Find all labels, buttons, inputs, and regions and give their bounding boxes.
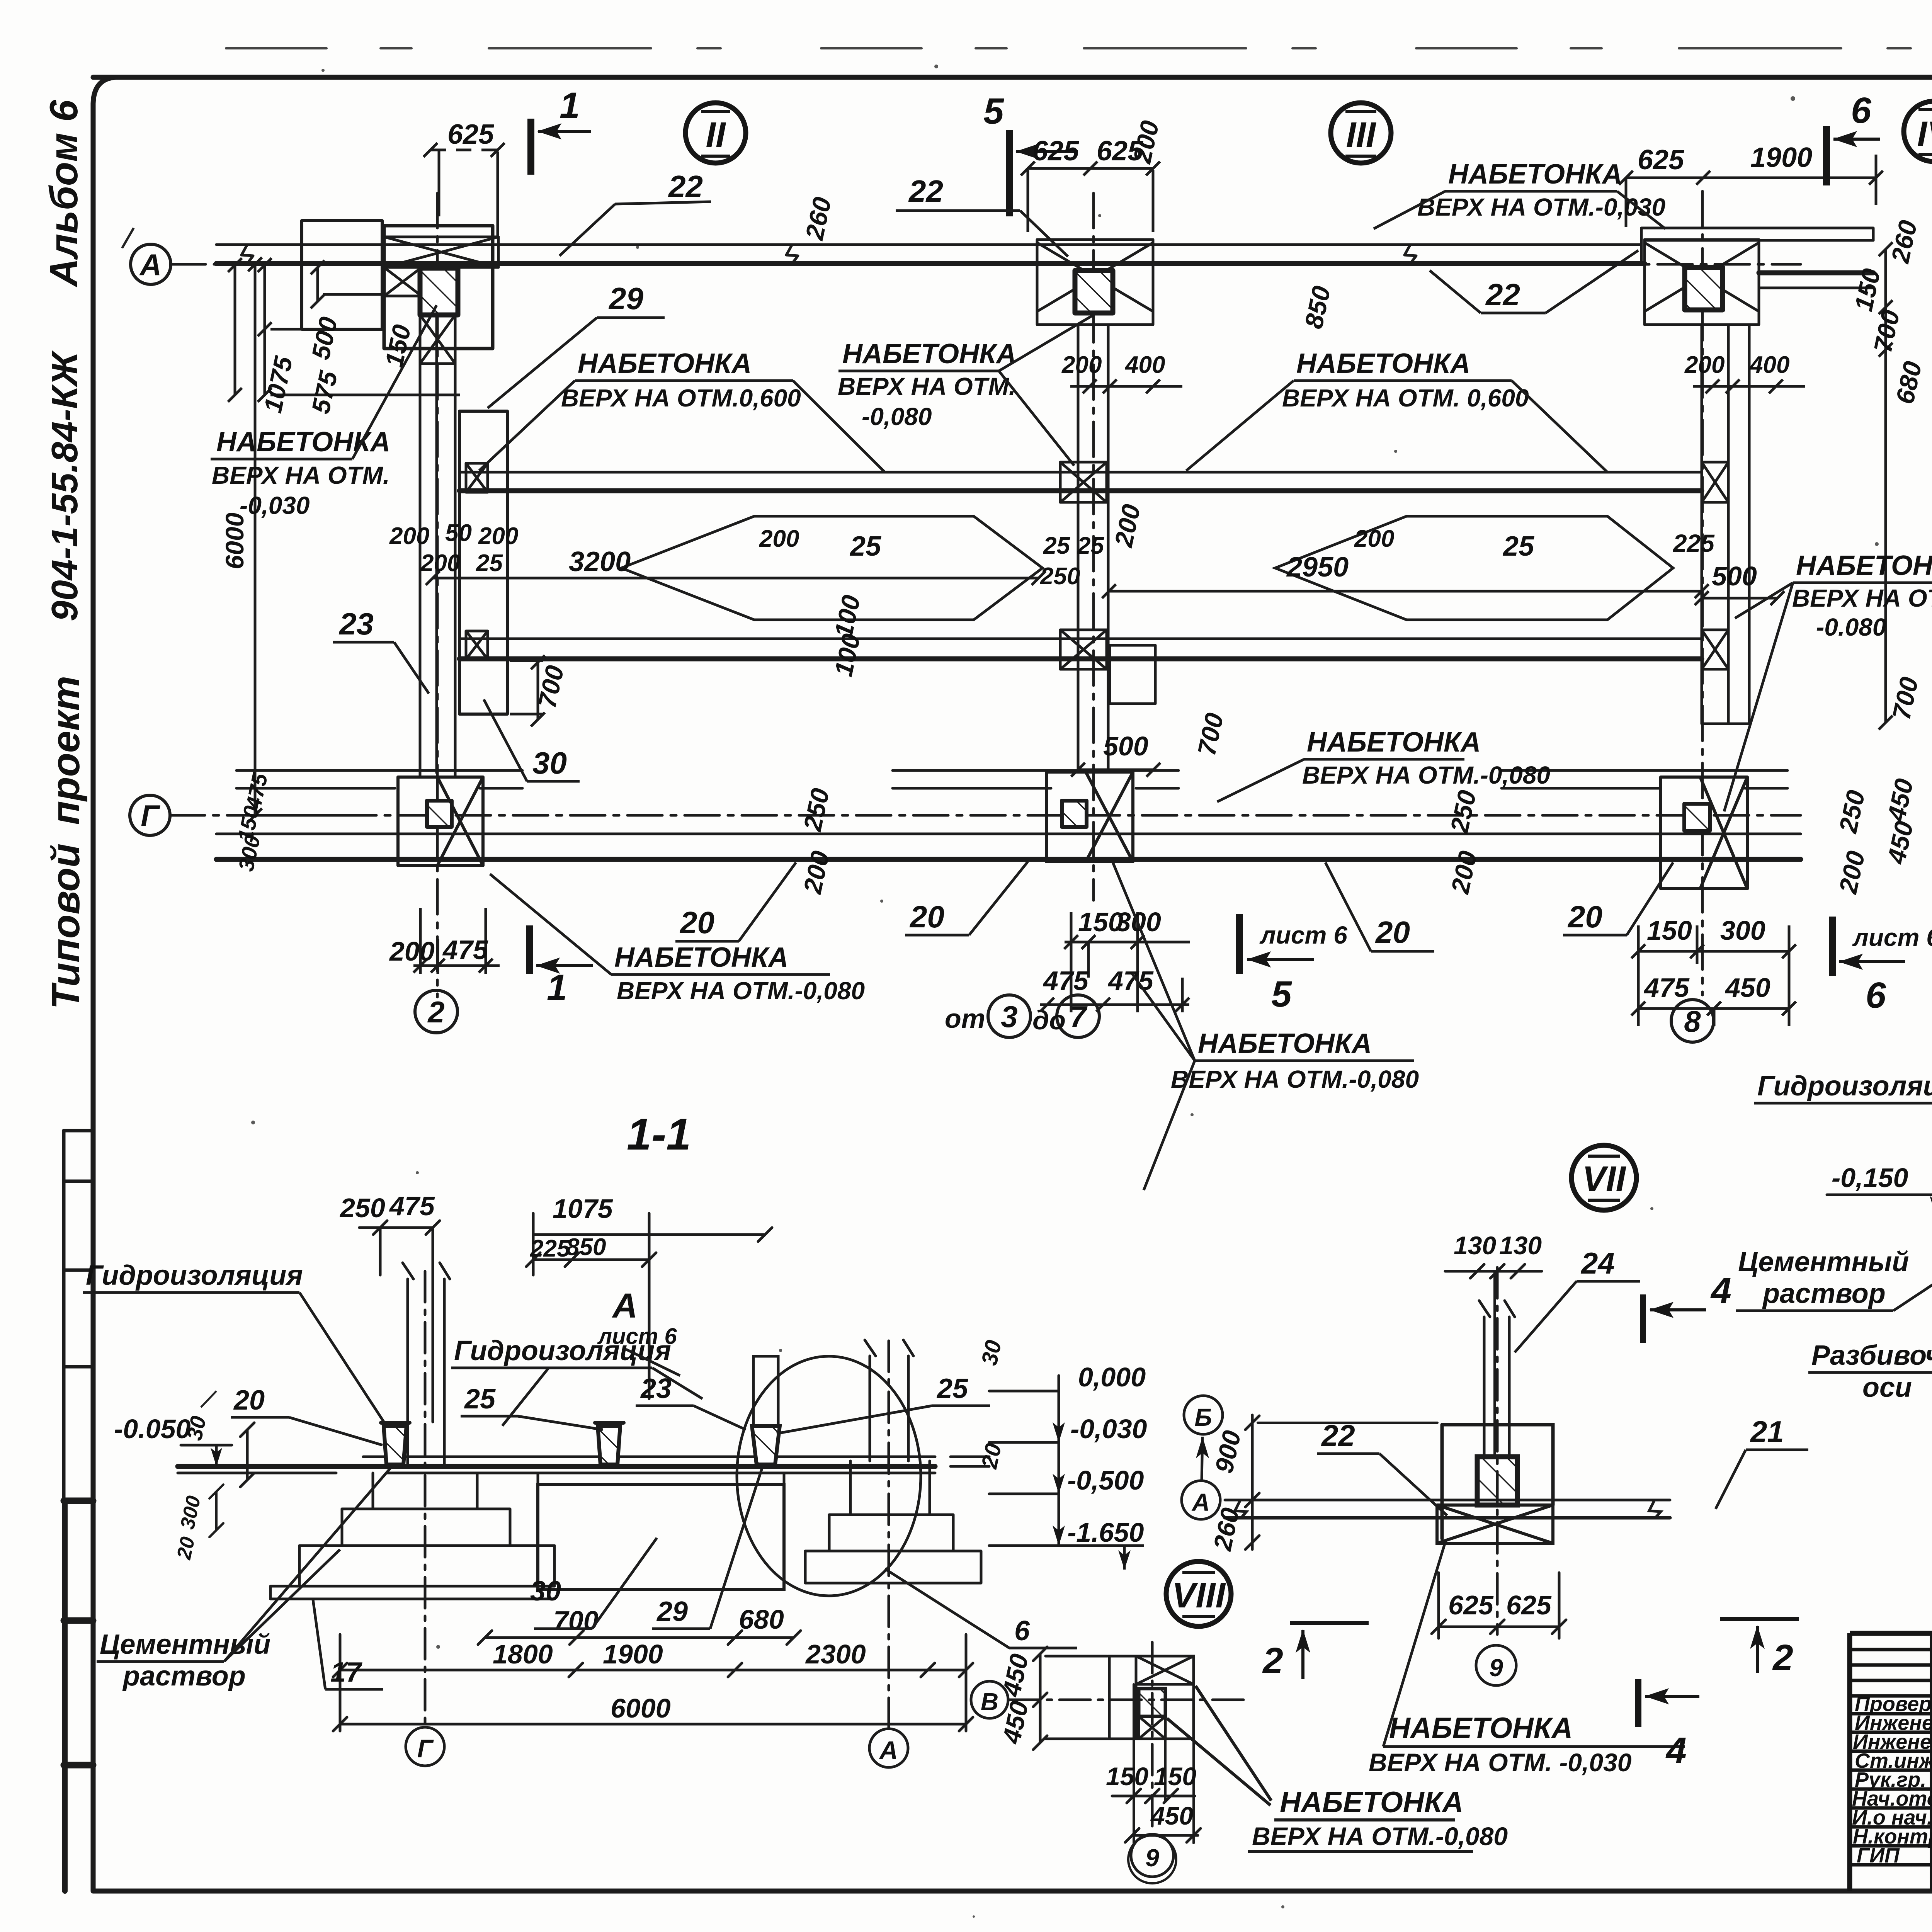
signature table rows (1850, 1650, 1932, 1865)
axis horizontal A (1221, 1500, 1497, 1500)
svg-text:200: 200 (1354, 526, 1394, 552)
svg-text:475: 475 (442, 935, 488, 965)
ground slab lines (178, 1464, 935, 1469)
svg-text:6000: 6000 (611, 1693, 671, 1723)
svg-text:В: В (981, 1688, 998, 1716)
pedestal square (1442, 1425, 1553, 1539)
svg-text:1900: 1900 (1750, 142, 1812, 173)
svg-text:А: А (879, 1736, 898, 1764)
detail ellipse A (737, 1356, 921, 1596)
svg-text:475: 475 (389, 1191, 435, 1221)
svg-text:-0,080: -0,080 (862, 403, 932, 430)
svg-text:400: 400 (1124, 352, 1165, 378)
leader labels (338, 169, 1602, 949)
svg-text:-0,030: -0,030 (240, 492, 310, 519)
foundation F3 (row A, axis 8) (1645, 240, 1759, 325)
wedge 3 tall with stem (29) (753, 1356, 778, 1426)
svg-text:29: 29 (656, 1596, 688, 1627)
svg-text:25: 25 (936, 1373, 968, 1404)
svg-text:2: 2 (1772, 1637, 1793, 1678)
TITLEBLOCK (1850, 1498, 1932, 1891)
left elevation -0.050 (181, 1445, 232, 1466)
svg-text:-0,150: -0,150 (1832, 1163, 1908, 1193)
axis (1009, 1699, 1244, 1701)
row G beams main (216, 833, 1801, 835)
stray pen mark top-left corner (122, 228, 134, 248)
svg-text:ВЕРХ НА ОТМ.: ВЕРХ НА ОТМ. (1792, 584, 1932, 612)
svg-text:Б: Б (1194, 1403, 1212, 1431)
svg-text:1800: 1800 (493, 1639, 553, 1669)
svg-text:500: 500 (1103, 731, 1148, 761)
svg-text:1: 1 (547, 967, 567, 1008)
svg-text:3: 3 (1001, 1000, 1017, 1034)
svg-text:1: 1 (560, 85, 580, 126)
mid dim row (433, 578, 1702, 591)
svg-text:Цементный: Цементный (100, 1629, 270, 1660)
svg-text:500: 500 (1712, 561, 1757, 591)
svg-text:ВЕРХ НА ОТМ.0,600: ВЕРХ НА ОТМ.0,600 (561, 384, 801, 412)
svg-text:0,000: 0,000 (1078, 1362, 1146, 1392)
wedge 2 (598, 1426, 620, 1464)
circles B / A left (1182, 1396, 1223, 1519)
svg-text:II: II (706, 115, 726, 155)
svg-text:ВЕРХ НА ОТМ.: ВЕРХ НА ОТМ. (838, 372, 1016, 400)
svg-text:22: 22 (908, 174, 943, 208)
svg-text:680: 680 (739, 1604, 784, 1634)
hatched column (1477, 1457, 1517, 1505)
main outline (1850, 1633, 1932, 1891)
svg-text:НАБЕТОНКА: НАБЕТОНКА (842, 338, 1016, 369)
svg-text:ВЕРХ НА ОТМ.-0,080: ВЕРХ НА ОТМ.-0,080 (1252, 1822, 1508, 1850)
svg-text:30: 30 (530, 1576, 561, 1607)
row G slab near col 8 (1502, 770, 1787, 788)
svg-text:Г: Г (141, 799, 160, 833)
svg-text:130: 130 (1454, 1231, 1496, 1260)
svg-text:Г: Г (417, 1734, 434, 1763)
beam break marks (241, 245, 1416, 264)
hatched column A mid (1075, 270, 1113, 313)
svg-text:6: 6 (1014, 1616, 1030, 1646)
svg-text:3200: 3200 (569, 546, 631, 577)
svg-text:VIII: VIII (1172, 1576, 1226, 1615)
svg-text:475: 475 (1643, 973, 1690, 1003)
svg-text:700: 700 (553, 1605, 599, 1636)
svg-text:22: 22 (668, 169, 703, 204)
svg-text:475: 475 (1043, 966, 1089, 996)
svg-text:20: 20 (173, 1535, 199, 1562)
column lines above (1484, 1317, 1509, 1457)
foundation F2 (row A, mid) (1037, 240, 1153, 325)
svg-text:1-1: 1-1 (627, 1110, 691, 1159)
svg-text:проект: проект (44, 676, 88, 825)
column strip S2 (1078, 325, 1108, 772)
wedge 1 (hydro) (384, 1426, 406, 1464)
axis circle A (130, 244, 1714, 1042)
titleblock texts (1852, 1692, 1932, 1868)
svg-text:2: 2 (1262, 1640, 1283, 1681)
svg-text:Гидроизоляция: Гидроизоляция (86, 1260, 303, 1291)
svg-text:-1.650: -1.650 (1067, 1517, 1144, 1548)
right pedestal and footing (805, 1461, 981, 1583)
svg-text:200: 200 (389, 523, 429, 549)
svg-text:200: 200 (1684, 352, 1725, 378)
svg-text:17: 17 (330, 1657, 362, 1688)
svg-text:1900: 1900 (603, 1639, 663, 1669)
svg-text:20: 20 (909, 900, 944, 934)
svg-text:22: 22 (1321, 1418, 1355, 1452)
svg-text:625: 625 (1506, 1590, 1552, 1620)
svg-text:2300: 2300 (805, 1639, 866, 1669)
row G slab near col 2 (236, 770, 522, 788)
axis 8 vertical (1701, 191, 1704, 995)
column strip S3 (1702, 325, 1749, 724)
svg-text:2: 2 (427, 995, 444, 1029)
axis A row: dash-dot line (171, 263, 1801, 266)
svg-text:30: 30 (182, 1414, 211, 1442)
svg-text:до: до (1032, 1005, 1066, 1035)
svg-text:IV: IV (1917, 114, 1932, 154)
svg-text:24: 24 (1580, 1246, 1615, 1280)
dim lines top of plan (228, 143, 1932, 1026)
G column assembly axis 8 (1661, 777, 1747, 889)
svg-text:раствор: раствор (1762, 1278, 1886, 1309)
dim texts row G (389, 529, 1784, 1003)
svg-text:III: III (1346, 115, 1377, 155)
axis 3..7 vertical (1092, 193, 1095, 900)
leaders to nabetonka -0.080 text (1167, 1686, 1271, 1805)
svg-text:-0.050: -0.050 (114, 1414, 191, 1444)
svg-text:ГИП: ГИП (1857, 1844, 1900, 1867)
svg-text:НАБЕТОНКА: НАБЕТОНКА (1448, 159, 1622, 190)
mid beams M2 (459, 638, 1702, 640)
foundation block left of M beams (29) (459, 411, 507, 714)
axis 2 vertical (436, 193, 439, 997)
right vertical dims (1886, 249, 1932, 893)
svg-text:25: 25 (1502, 531, 1534, 562)
left vertical dims (232, 264, 344, 815)
svg-text:4: 4 (1665, 1730, 1687, 1771)
svg-text:ВЕРХ НА ОТМ.-0,030: ВЕРХ НА ОТМ.-0,030 (1417, 193, 1665, 221)
elevation -0.150 (1827, 1195, 1932, 1215)
rotated dim texts (220, 118, 1932, 896)
svg-text:ВЕРХ НА ОТМ.: ВЕРХ НА ОТМ. (212, 461, 390, 489)
svg-text:-0,500: -0,500 (1067, 1465, 1144, 1495)
dim 900/260 left (1245, 1415, 1259, 1549)
svg-text:ВЕРХ НА ОТМ.-0,080: ВЕРХ НА ОТМ.-0,080 (1302, 761, 1550, 789)
left column (408, 1279, 444, 1466)
section marks 2 and 4 (1290, 1294, 1799, 1727)
svg-text:5: 5 (1271, 974, 1292, 1015)
svg-text:Гидроизоляция: Гидроизоляция (1757, 1071, 1932, 1102)
svg-text:625: 625 (1032, 136, 1079, 167)
svg-text:400: 400 (1749, 352, 1789, 378)
svg-text:20: 20 (679, 905, 714, 940)
svg-text:НАБЕТОНКА: НАБЕТОНКА (578, 348, 752, 379)
dims 625 625 below (1432, 1573, 1566, 1638)
svg-text:625: 625 (1638, 145, 1684, 175)
beam row A (1225, 1499, 1670, 1502)
underlines + leaders for nabetonka (211, 191, 1932, 1190)
svg-text:450: 450 (1150, 1801, 1193, 1830)
svg-text:НАБЕТОНКА: НАБЕТОНКА (1280, 1786, 1463, 1819)
svg-text:200: 200 (1061, 352, 1102, 378)
svg-text:лист 6: лист 6 (1852, 923, 1932, 951)
svg-text:2950: 2950 (1286, 552, 1349, 583)
signature table verticals (1932, 1633, 1932, 1891)
foundation F1 (row A, axis 2) (302, 221, 382, 329)
mid foundation block 30 (538, 1485, 784, 1590)
svg-text:200: 200 (420, 550, 460, 577)
svg-text:-0,030: -0,030 (1070, 1414, 1147, 1444)
crossed box (1437, 1505, 1553, 1543)
svg-text:850: 850 (566, 1234, 606, 1260)
svg-text:9: 9 (1489, 1654, 1503, 1682)
svg-text:30: 30 (976, 1338, 1006, 1368)
svg-text:475: 475 (1107, 966, 1154, 996)
svg-text:625: 625 (447, 119, 494, 150)
right column (870, 1356, 908, 1461)
svg-text:21: 21 (1750, 1415, 1784, 1449)
svg-text:25: 25 (849, 531, 881, 562)
svg-text:20: 20 (976, 1441, 1006, 1471)
svg-text:-0.080: -0.080 (1816, 613, 1886, 641)
svg-text:Разбивочные: Разбивочные (1811, 1340, 1932, 1371)
svg-text:НАБЕТОНКА: НАБЕТОНКА (1796, 550, 1932, 581)
svg-text:5: 5 (983, 91, 1004, 132)
right elevation bracket (989, 1376, 1059, 1546)
svg-text:450: 450 (1725, 973, 1770, 1003)
svg-text:904-1-55.84-КЖ: 904-1-55.84-КЖ (44, 350, 85, 621)
svg-text:20: 20 (1567, 900, 1602, 934)
svg-text:200: 200 (389, 936, 435, 966)
hexagon leaders with 25 (621, 516, 1673, 620)
svg-text:150: 150 (1647, 915, 1692, 946)
svg-text:VII: VII (1582, 1159, 1627, 1199)
row A beam lines (216, 243, 1641, 246)
svg-text:Типовой: Типовой (44, 844, 88, 1009)
svg-text:лист 6: лист 6 (597, 1324, 677, 1349)
svg-text:6: 6 (1851, 90, 1872, 131)
svg-text:225: 225 (1673, 529, 1715, 557)
svg-text:Альбом 6: Альбом 6 (42, 99, 86, 288)
top dims (359, 1221, 440, 1422)
svg-text:НАБЕТОНКА: НАБЕТОНКА (614, 942, 788, 973)
svg-text:А: А (1191, 1488, 1210, 1516)
svg-text:раствор: раствор (122, 1661, 246, 1692)
svg-text:150: 150 (1154, 1762, 1196, 1791)
left fold strip (62, 1131, 66, 1891)
svg-text:200: 200 (759, 526, 799, 552)
svg-text:22: 22 (1485, 277, 1520, 312)
G column assembly mid (1046, 772, 1133, 862)
svg-text:А: А (139, 248, 162, 282)
svg-text:200: 200 (478, 523, 518, 549)
svg-text:625: 625 (1448, 1590, 1494, 1620)
svg-text:25: 25 (476, 550, 503, 577)
svg-text:НАБЕТОНКА: НАБЕТОНКА (1307, 727, 1481, 758)
svg-text:4: 4 (1710, 1270, 1731, 1311)
left footing steps (270, 1473, 554, 1599)
row G slab near mid col (893, 770, 1179, 788)
svg-text:250: 250 (1040, 563, 1080, 590)
circle 9 below (1476, 1645, 1516, 1685)
svg-text:20: 20 (1375, 915, 1410, 949)
svg-text:9: 9 (1145, 1844, 1159, 1872)
svg-text:20: 20 (233, 1385, 265, 1416)
row A right slab (unit IV) (1641, 228, 1873, 264)
svg-text:НАБЕТОНКА: НАБЕТОНКА (1389, 1712, 1573, 1745)
axes vertical dash-dot (424, 1271, 427, 1724)
axis circles below 1-1 (406, 1727, 908, 1767)
stacked boxes (1109, 1656, 1136, 1739)
svg-text:НАБЕТОНКА: НАБЕТОНКА (216, 427, 390, 457)
svg-text:1075: 1075 (553, 1194, 613, 1224)
svg-text:225: 225 (530, 1235, 571, 1262)
svg-text:НАБЕТОНКА: НАБЕТОНКА (1296, 348, 1470, 379)
svg-text:30: 30 (532, 746, 567, 780)
svg-text:29: 29 (608, 281, 643, 316)
svg-text:23: 23 (338, 607, 374, 641)
-1.650 arrow (from 1-1) (1043, 1546, 1144, 1570)
svg-text:6: 6 (1866, 975, 1886, 1016)
crossed boxes at beam/column joints (466, 463, 488, 492)
hatched column A8 (1685, 267, 1723, 310)
svg-text:25: 25 (1043, 532, 1070, 559)
svg-text:НАБЕТОНКА: НАБЕТОНКА (1198, 1028, 1372, 1059)
svg-text:ВЕРХ НА ОТМ. 0,600: ВЕРХ НА ОТМ. 0,600 (1282, 384, 1529, 412)
svg-text:6000: 6000 (220, 512, 249, 569)
svg-text:лист 6: лист 6 (1259, 921, 1347, 949)
nabetonka text blocks on plan (212, 159, 1932, 1093)
svg-text:оси: оси (1862, 1372, 1912, 1403)
axis verticals (1496, 1267, 1499, 1634)
svg-text:Цементный: Цементный (1738, 1247, 1909, 1277)
svg-text:ВЕРХ НА ОТМ.-0,080: ВЕРХ НА ОТМ.-0,080 (1171, 1065, 1419, 1093)
svg-text:25: 25 (1077, 532, 1104, 559)
row G bottom dims (413, 908, 500, 974)
svg-text:300: 300 (1720, 915, 1765, 946)
foundation below M2 mid (1110, 645, 1155, 704)
mid beams M1 (459, 471, 1702, 474)
dims 150 150 450 below (1112, 1789, 1195, 1803)
G column assembly axis 2 (398, 777, 483, 866)
bottom dims (478, 1631, 801, 1645)
dims 130 130 top (1445, 1264, 1542, 1278)
svg-text:ВЕРХ НА ОТМ.-0,080: ВЕРХ НА ОТМ.-0,080 (617, 977, 865, 1005)
section marks top (530, 119, 1905, 976)
dims 450 450 left (1033, 1647, 1107, 1750)
left margin rotated captions (42, 99, 88, 1009)
svg-text:А: А (612, 1287, 638, 1325)
svg-text:250: 250 (339, 1193, 385, 1223)
svg-text:от: от (945, 1003, 985, 1034)
column strip S1 (420, 315, 455, 777)
svg-text:ВЕРХ НА ОТМ. -0,030: ВЕРХ НА ОТМ. -0,030 (1369, 1748, 1632, 1777)
scan artifact: top broken line (226, 47, 1932, 49)
axis G row: dash-dot line (170, 814, 1801, 817)
svg-text:150: 150 (1106, 1762, 1148, 1791)
dim texts plan top (389, 119, 1812, 590)
svg-text:25: 25 (464, 1384, 496, 1415)
hatched column A2 (420, 268, 458, 315)
svg-text:50: 50 (445, 520, 472, 546)
svg-text:130: 130 (1499, 1231, 1542, 1260)
